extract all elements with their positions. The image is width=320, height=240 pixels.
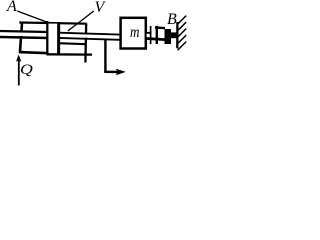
cylinder right wall xyxy=(84,23,87,62)
drain pipe xyxy=(104,40,120,73)
label A xyxy=(7,0,17,15)
cylinder right chamber floor xyxy=(59,43,87,44)
cylinder bottom left wall xyxy=(19,52,49,53)
mass m block xyxy=(121,18,146,49)
damper mouth plate xyxy=(151,26,157,44)
fixed wall line xyxy=(176,22,178,48)
damper rod from mass xyxy=(146,33,151,38)
piston rod right xyxy=(59,33,120,40)
cylinder top wall xyxy=(19,23,87,24)
leader line A xyxy=(17,11,48,23)
cylinder bottom right wall xyxy=(47,53,93,56)
label B xyxy=(167,12,177,28)
damper cup top arm xyxy=(155,26,165,29)
label m xyxy=(130,25,139,41)
flow arrow Q shaft xyxy=(18,60,20,86)
flow arrow Q head xyxy=(16,55,21,62)
cylinder left wall xyxy=(20,22,22,53)
drain flow arrowhead xyxy=(116,69,126,76)
leader line V xyxy=(68,11,94,31)
piston xyxy=(47,21,58,55)
piston rod left xyxy=(0,31,48,38)
label Q xyxy=(20,63,33,78)
damper piston slab xyxy=(165,29,172,44)
damper stub to wall xyxy=(171,32,177,38)
damper cup bottom arm xyxy=(146,39,165,40)
wall hatching xyxy=(178,16,187,51)
label V xyxy=(95,0,105,16)
